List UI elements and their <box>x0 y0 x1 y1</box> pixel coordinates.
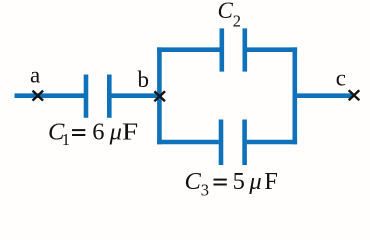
svg-text:2: 2 <box>233 11 241 30</box>
wire: top rail right (C2 to right vertical) <box>247 47 297 52</box>
wire: bottom rail left (b to C3) <box>157 140 219 145</box>
label C2 <box>218 0 242 30</box>
node c <box>349 90 360 100</box>
svg-text:C: C <box>218 0 234 23</box>
svg-text:b: b <box>138 67 150 92</box>
svg-text:F: F <box>264 168 278 195</box>
node a <box>33 91 44 101</box>
svg-text:3: 3 <box>201 180 209 199</box>
svg-text:μ: μ <box>109 119 122 146</box>
label node b <box>138 67 150 92</box>
wire: bottom rail right (C3 to right vertical) <box>247 140 297 145</box>
value label C1 = 6 uF <box>48 119 138 149</box>
svg-text:a: a <box>30 63 40 88</box>
wire: left lead from a to C1 <box>15 93 85 98</box>
svg-text:5: 5 <box>233 168 245 195</box>
svg-text:μ: μ <box>248 168 261 195</box>
label node a <box>30 63 40 88</box>
label node c <box>336 65 346 90</box>
node b <box>154 91 165 101</box>
capacitor C3 <box>221 120 245 166</box>
wire: right lead to c <box>295 93 354 98</box>
capacitor C2 <box>222 28 245 71</box>
svg-text:6: 6 <box>92 119 104 146</box>
wire: C1 to node b <box>112 93 163 98</box>
value label C3 = 5 uF <box>185 168 278 199</box>
wire: left vertical branch at b <box>157 47 162 144</box>
svg-text:c: c <box>336 65 346 90</box>
wire: top rail left (b to C2) <box>157 47 219 52</box>
svg-text:1: 1 <box>62 130 70 149</box>
capacitor C1 <box>86 75 109 118</box>
svg-text:C: C <box>185 168 202 195</box>
wire: right vertical branch <box>292 47 297 144</box>
svg-text:F: F <box>122 119 138 146</box>
